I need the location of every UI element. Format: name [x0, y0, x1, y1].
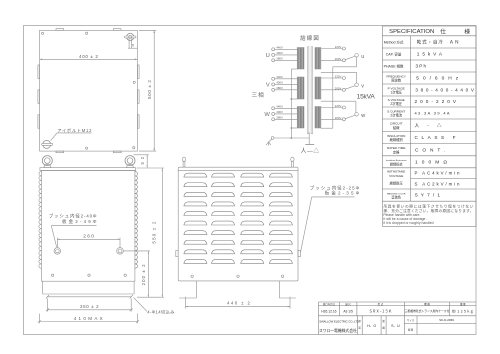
spec row S CURRENT 2次電流 43.3A 39.4A [387, 109, 450, 117]
svg-text:1次電圧: 1次電圧 [390, 90, 402, 95]
delta link wire u coil end to v terminal [321, 72, 357, 83]
top view: cover screws [42, 32, 136, 149]
dimension 200±2 (hole height) [124, 251, 151, 297]
side view: eyebolt right (edge-on) [291, 157, 294, 167]
svg-text:PHASE 相数: PHASE 相数 [384, 63, 404, 68]
svg-text:if it is dropped or roughly ha: if it is dropped or roughly handled [383, 221, 433, 225]
svg-text:型 式: 型 式 [378, 302, 384, 306]
spec row insulation resistance 絶縁抵抗 100MΩ [386, 159, 448, 166]
svg-text:仕: 仕 [440, 27, 446, 35]
dimension 400±2 (top view width) [40, 54, 138, 60]
svg-text:43.3A 39.4A: 43.3A 39.4A [415, 111, 450, 116]
primary taps V 440/400/380V [272, 75, 298, 91]
spec row PHASE 相数 3Ph [384, 63, 427, 68]
svg-text:乾式・自冷 ＡＮ: 乾式・自冷 ＡＮ [417, 39, 459, 46]
svg-text:15kVA: 15kVA [357, 93, 376, 100]
svg-text:200V: 200V [335, 86, 342, 90]
svg-text:200 ± 2: 200 ± 2 [141, 264, 146, 286]
dimension 52 (eyebolt height) [134, 155, 149, 168]
side view: left foot [179, 281, 196, 298]
secondary taps v 220/200V with selector [321, 75, 364, 92]
svg-text:U: U [266, 53, 270, 59]
svg-text:S AC2kV/min: S AC2kV/min [415, 181, 461, 186]
title block company name [319, 319, 359, 332]
front view: left fin scallops [39, 172, 42, 269]
front view: right fin scallops [135, 172, 138, 269]
svg-text:220V: 220V [335, 75, 342, 79]
svg-text:H．G: H．G [367, 324, 376, 328]
svg-text:SK-D-2969: SK-D-2969 [439, 318, 454, 322]
svg-text:440V: 440V [276, 46, 283, 50]
svg-text:A3 1/5: A3 1/5 [343, 309, 353, 313]
svg-text:SPECIFICATION: SPECIFICATION [389, 29, 434, 35]
front view: body outline [42, 171, 135, 282]
secondary winding coils [315, 48, 321, 129]
front view: bottom flange with slot cut marks [46, 295, 133, 299]
svg-text:380V: 380V [276, 86, 283, 90]
spec row FREQUENCY 周波数 50/60Hz [386, 74, 458, 82]
svg-text:S．U: S．U [391, 324, 400, 328]
primary taps U 440/400/380V [272, 46, 298, 62]
svg-text:様: 様 [464, 27, 470, 35]
svg-text:H26.12.16: H26.12.16 [321, 309, 336, 313]
side view: body outline [178, 167, 298, 281]
spec row S VOLTAGE 2次電圧 200-220V [388, 98, 457, 106]
front view: eyebolt right [125, 156, 135, 168]
title block grid [319, 302, 477, 335]
svg-text:200V: 200V [335, 57, 342, 61]
label bushing 2-25 / 2-35 with leader [301, 185, 360, 252]
label bushing 2-40 / 2-49 with leader [49, 213, 97, 247]
svg-text:約 １２５ｋｇ: 約 １２５ｋｇ [452, 309, 473, 314]
secondary taps u 220/200V with selector [321, 45, 364, 62]
svg-text:350 ± 2: 350 ± 2 [80, 304, 99, 309]
svg-text:絶縁抵抗: 絶縁抵抗 [390, 161, 404, 166]
eyebolt top-right (plan) [124, 33, 136, 40]
svg-text:人—△: 人—△ [301, 146, 320, 154]
svg-text:W: W [264, 112, 270, 118]
svg-text:CAP. 容量: CAP. 容量 [386, 51, 402, 56]
svg-text:440V: 440V [276, 105, 283, 109]
eyebolt bottom-left (plan) [42, 140, 53, 148]
top view: right edge notches [137, 65, 139, 128]
dimension 500±2 (top view height) [139, 30, 156, 151]
dimension 350±2 (base) [46, 299, 133, 312]
spec row CIRCUIT 結線 人-△ [390, 122, 442, 130]
chassis ground symbol at neutral [266, 139, 272, 146]
svg-text:SWALLOW ELECTRIC CO.,LTD: SWALLOW ELECTRIC CO.,LTD [319, 319, 359, 323]
svg-text:220V: 220V [335, 104, 342, 108]
svg-text:周波数: 周波数 [391, 78, 402, 83]
front view: base channel [43, 281, 135, 294]
svg-text:380V: 380V [276, 116, 283, 120]
delta link wire u to w coil end [321, 57, 357, 128]
title block approval stamps [358, 319, 400, 330]
side view: bushing tab right [298, 251, 300, 257]
side view: bushing tab left [176, 251, 178, 257]
dimension 260 between holes [57, 234, 120, 248]
dimension 410MAX (overall width) [38, 314, 139, 324]
spec row Method 方式 [384, 39, 459, 46]
svg-text:w: w [360, 113, 365, 119]
svg-text:P AC4kV/min: P AC4kV/min [415, 171, 461, 176]
svg-text:VOLTAGE: VOLTAGE [389, 174, 403, 178]
dimension 550±2 (overall height) [137, 168, 164, 297]
front view: eyebolt left [42, 156, 52, 168]
side view: eyebolt left (edge-on) [182, 157, 185, 167]
neutral terminal and wire [271, 137, 309, 140]
label eyebolt M12 with leader [51, 127, 93, 141]
svg-text:3Ph: 3Ph [416, 64, 427, 69]
svg-text:2次電圧: 2次電圧 [390, 101, 402, 106]
svg-text:4-Φ14切込み: 4-Φ14切込み [147, 309, 174, 316]
svg-text:WITHSTAND: WITHSTAND [387, 170, 406, 174]
svg-text:種 類: 種 類 [424, 302, 430, 306]
svg-text:絶縁種別: 絶縁種別 [390, 137, 403, 142]
svg-text:吊具を使いの際には落下させたり傷をつけない: 吊具を使いの際には落下させたり傷をつけない [383, 204, 473, 209]
svg-text:260: 260 [83, 234, 94, 240]
svg-text:絶縁耐圧: 絶縁耐圧 [390, 180, 404, 185]
svg-text:結線図: 結線図 [300, 34, 319, 42]
svg-text:380V: 380V [276, 57, 283, 61]
svg-text:三相: 三相 [252, 91, 264, 99]
svg-text:v: v [361, 83, 364, 89]
top view: left edge notches [38, 65, 40, 128]
svg-text:400V: 400V [276, 51, 283, 55]
side view: louver vent slots 4x10 [184, 173, 293, 263]
core earth wire and bar [305, 132, 314, 144]
dimension 440±2 (side base) [186, 297, 290, 309]
svg-text:2次電流: 2次電流 [390, 113, 402, 118]
top view: lid tabs bottom edge [56, 151, 121, 153]
svg-text:スワロー電機株式会社: スワロー電機株式会社 [319, 328, 357, 333]
svg-text:440V: 440V [276, 75, 283, 79]
primary star point bus wire [291, 69, 298, 138]
svg-text:550 ± 2: 550 ± 2 [151, 221, 156, 243]
eyebolt top-right shank lines and small dim [128, 39, 137, 48]
side view: right foot [279, 281, 296, 298]
top view: enclosure outline 400x500 [40, 30, 138, 151]
svg-text:定格: 定格 [393, 149, 400, 154]
primary taps W 440/400/380V [272, 105, 298, 121]
svg-text:人-△: 人-△ [415, 122, 442, 129]
spec row INSULATION 絶縁種別 CLASS F [387, 134, 456, 142]
svg-text:220V: 220V [335, 45, 342, 49]
svg-text:440 ± 2: 440 ± 2 [227, 301, 250, 306]
spec row RATED TIME 定格 CONT. [387, 146, 445, 154]
front view: bushing holes [54, 248, 123, 255]
spec row PAINTING COLOR 塗装色 5Y7/1 [387, 193, 440, 200]
top view: lid tabs top edge [56, 29, 121, 31]
spec note caution text [383, 204, 473, 225]
svg-text:Method 方式: Method 方式 [384, 39, 404, 44]
title block header labels [323, 302, 466, 306]
secondary taps w 220/200V with selector [321, 104, 365, 121]
svg-text:三相複巻乾式トランス屋内ケース付: 三相複巻乾式トランス屋内ケース付 [405, 309, 450, 313]
spec row P VOLTAGE 1次電圧 380-400-440V [388, 86, 475, 94]
svg-text:結線: 結線 [393, 125, 400, 130]
svg-text:400 ± 2: 400 ± 2 [79, 54, 98, 59]
side view: top plate line [178, 169, 298, 171]
svg-text:400V: 400V [276, 110, 283, 114]
svg-text:重 量: 重 量 [460, 302, 466, 306]
svg-text:塗装色: 塗装色 [391, 195, 401, 200]
side view: base screws [191, 275, 284, 277]
title block size and drawing number [407, 318, 454, 332]
svg-text:400V: 400V [276, 81, 283, 85]
front view: top plate [40, 168, 136, 171]
spec row WITHSTAND VOLTAGE 絶縁耐圧 [387, 170, 460, 187]
delta link wire v coil end to w terminal [321, 101, 356, 113]
specification table grid [382, 26, 476, 226]
primary winding coils [297, 48, 304, 129]
label 4-φ14 cutout with leader [134, 297, 175, 315]
svg-text:V: V [266, 83, 270, 89]
svg-text:縮 尺: 縮 尺 [345, 302, 351, 306]
svg-text:ＳＲＸ−１５Ｋ: ＳＲＸ−１５Ｋ [369, 310, 392, 314]
svg-text:500 ± 2: 500 ± 2 [147, 80, 152, 99]
spec row CAP 容量 15kVA [386, 51, 443, 56]
svg-text:発行年月日: 発行年月日 [323, 302, 335, 306]
svg-text:200V: 200V [335, 116, 342, 120]
svg-text:u: u [361, 54, 364, 60]
drawing frame border [24, 26, 477, 335]
front view: base screws [51, 274, 126, 276]
transformer core laminations [307, 47, 312, 134]
